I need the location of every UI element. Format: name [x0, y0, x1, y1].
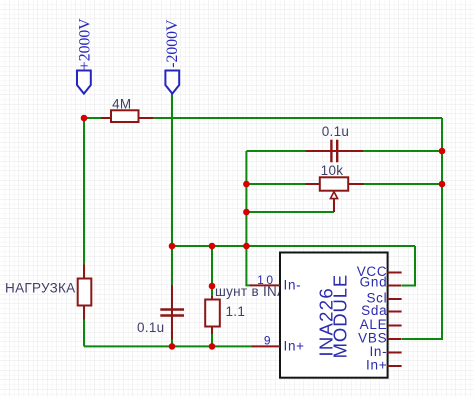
junction mid rail at -2000V column — [169, 243, 176, 250]
junction bottom rail at shunt column — [209, 343, 216, 350]
svg-text:MODULE: MODULE — [329, 274, 350, 359]
power flag -2000V — [164, 19, 181, 94]
wire mid rail y246 — [172, 245, 415, 247]
wire -2000V vertical drop — [171, 93, 173, 246]
junction pot row left — [243, 181, 250, 188]
junction shunt top In- tap — [209, 283, 216, 290]
svg-text:9: 9 — [264, 334, 273, 348]
pin VCC stub — [388, 272, 402, 274]
pin VBS stub — [388, 338, 402, 340]
junction mid rail at In- branch — [243, 243, 250, 250]
wire gnd drop from mid rail — [402, 246, 415, 286]
wire shunt column — [211, 246, 213, 346]
pin ALE stub — [388, 325, 402, 327]
IC name INA226 MODULE — [315, 274, 350, 359]
svg-text:0.1u: 0.1u — [322, 124, 349, 139]
potentiometer 10k — [306, 163, 365, 212]
svg-text:Sda: Sda — [361, 303, 387, 318]
pin Sda stub — [388, 311, 402, 313]
svg-text:10: 10 — [257, 273, 276, 287]
pin In+ right stub — [388, 365, 402, 367]
pin Gnd stub — [388, 285, 402, 287]
capacitor C2 0.1u vertical — [137, 285, 184, 340]
capacitor C1 0.1u horizontal — [306, 124, 363, 162]
pin Scl stub — [388, 298, 402, 300]
junction wiper row left — [243, 209, 250, 216]
IC U1 INA226 MODULE body — [280, 253, 388, 378]
wire bottom rail — [84, 345, 253, 347]
junction mid rail at shunt column — [209, 243, 216, 250]
junction at +2000V / 4M node — [81, 115, 88, 122]
junction right column at C1 row — [439, 148, 446, 155]
wire potentiometer row — [246, 183, 442, 185]
resistor 4M — [101, 96, 153, 122]
svg-text:+2000V: +2000V — [77, 18, 94, 71]
wire left column through load — [83, 118, 85, 346]
wire capacitor C2 column — [171, 246, 173, 346]
svg-text:4M: 4M — [112, 96, 131, 111]
power flag +2000V — [77, 18, 94, 94]
svg-text:Gnd: Gnd — [360, 275, 388, 290]
wire capacitor C1 row — [246, 150, 442, 152]
wiper arrow — [330, 192, 337, 199]
resistor shunt 1.1 — [205, 296, 245, 334]
pin In- right stub — [388, 352, 402, 354]
junction right column at pot row — [439, 181, 446, 188]
wire In- branch vertical — [246, 151, 251, 285]
svg-text:In+: In+ — [366, 358, 387, 373]
wire wiper row — [246, 211, 334, 213]
svg-text:0.1u: 0.1u — [137, 320, 164, 335]
wire top rail from +2000V node to right column — [84, 117, 442, 119]
svg-text:-2000V: -2000V — [164, 19, 181, 68]
svg-text:In+: In+ — [284, 338, 305, 353]
svg-text:10k: 10k — [321, 163, 344, 178]
svg-text:НАГРУЗКА: НАГРУЗКА — [5, 281, 75, 296]
wire right column to VBS — [402, 118, 442, 339]
svg-text:In-: In- — [284, 277, 302, 292]
junction bottom rail at C2 column — [169, 343, 176, 350]
pin 9 In+ stub — [252, 345, 280, 347]
resistor load НАГРУЗКА — [5, 265, 91, 320]
pin 10 In- stub — [250, 284, 280, 286]
svg-text:1.1: 1.1 — [226, 304, 246, 319]
